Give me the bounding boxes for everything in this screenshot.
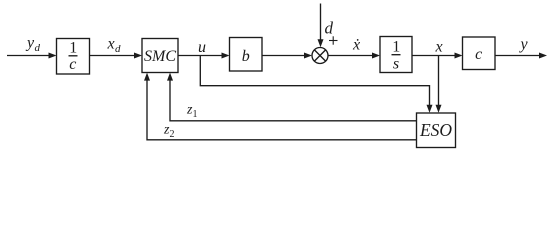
svg-text:ESO: ESO [419,120,452,140]
svg-text:s: s [393,56,399,73]
svg-text:b: b [242,48,250,65]
svg-text:1: 1 [392,39,400,56]
svg-text:u: u [198,39,206,56]
svg-text:c: c [475,46,482,63]
svg-text:c: c [69,56,76,73]
svg-text:SMC: SMC [144,48,176,65]
svg-text:d: d [325,19,334,38]
svg-text:ẋ: ẋ [352,37,361,54]
svg-text:x: x [435,39,443,56]
svg-text:1: 1 [69,40,77,57]
svg-text:y: y [519,36,529,53]
